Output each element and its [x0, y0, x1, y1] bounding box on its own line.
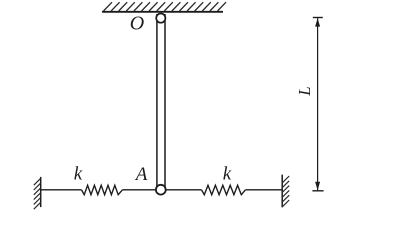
dimension bottom tick [312, 190, 323, 192]
svg-text:k: k [74, 164, 83, 185]
right wall [281, 175, 283, 208]
spring k (left) [82, 185, 123, 194]
wire: wall to left spring [41, 189, 82, 191]
spring k (right) [202, 185, 246, 194]
dimension top tick [313, 17, 323, 19]
svg-text:A: A [134, 164, 148, 185]
arrowhead down [315, 182, 320, 190]
arrowhead up [315, 18, 320, 26]
ceiling line [102, 11, 223, 13]
dimension line L [317, 18, 319, 190]
wire: right spring to wall [246, 189, 283, 191]
svg-text:k: k [223, 164, 232, 185]
left wall [40, 177, 42, 207]
rod (bar OA) [156, 14, 158, 189]
left wall hatching [34, 178, 41, 209]
svg-text:O: O [130, 12, 144, 34]
wire: A to right spring [163, 189, 202, 191]
pin A [156, 185, 166, 195]
svg-text:L: L [295, 86, 314, 96]
ceiling hatching [104, 2, 227, 11]
pivot pin O [156, 14, 165, 23]
right wall hatching [282, 176, 289, 207]
wire: left spring to A [123, 189, 160, 191]
